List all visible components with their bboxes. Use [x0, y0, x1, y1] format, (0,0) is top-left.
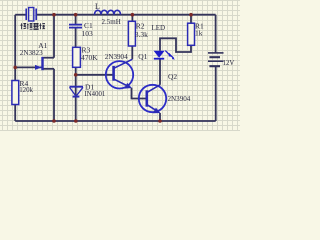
wire: Q2 emitter to bottom rail	[159, 113, 161, 121]
svg-text:Q2: Q2	[168, 72, 177, 81]
svg-text:L: L	[95, 2, 100, 11]
diode D1	[70, 87, 84, 97]
junction: R2 / top rail	[131, 13, 135, 17]
svg-text:IN4001: IN4001	[85, 91, 106, 98]
svg-text:LED: LED	[152, 24, 166, 32]
junction: gate / left column	[13, 66, 17, 70]
wire: R4 bottom to bottom rail	[14, 105, 16, 122]
svg-text:1k: 1k	[195, 29, 203, 38]
svg-text:2N3823: 2N3823	[20, 49, 43, 57]
wire: battery bottom to rail	[215, 66, 217, 121]
wire: JFET gate from left column	[15, 66, 41, 68]
wire: LED anode bridge to R1 bottom	[160, 38, 191, 52]
svg-text:2N3904: 2N3904	[168, 95, 191, 103]
junction: R1 / top rail	[189, 13, 193, 17]
inductor L	[95, 10, 121, 14]
junction: Q2 emitter / bottom rail	[158, 119, 162, 123]
junction: C1 / top rail	[74, 13, 78, 17]
JFET A1	[35, 57, 54, 70]
svg-text:103: 103	[82, 29, 94, 38]
resistor R1	[188, 23, 195, 45]
svg-text:120k: 120k	[19, 87, 33, 94]
wire: JFET drain up to rail	[53, 15, 55, 58]
wire: R2 stub from rail	[131, 15, 133, 22]
wire: R2 bottom to Q1 collector	[131, 46, 133, 59]
wire: base wire to Q1	[76, 74, 114, 76]
resistor R4	[12, 81, 19, 105]
svg-text:2.5mH: 2.5mH	[102, 18, 121, 26]
wire: top rail	[15, 14, 215, 16]
svg-text:Q1: Q1	[138, 52, 147, 61]
svg-text:2N3904: 2N3904	[105, 53, 128, 61]
battery 12V	[208, 53, 224, 66]
junction: JFET drain / top rail	[52, 13, 56, 17]
transistor Q1	[106, 59, 133, 88]
LED	[154, 51, 175, 60]
wire: battery top from rail	[215, 15, 217, 53]
svg-text:D1: D1	[85, 82, 94, 91]
wire: bottom rail	[15, 120, 216, 122]
wire: R1 stub from rail	[190, 15, 192, 24]
wire: R3 bottom to D1 to bottom rail	[75, 67, 77, 121]
junction: D1 / bottom rail	[74, 119, 78, 123]
wire: JFET source down to rail	[53, 69, 55, 121]
junction: JFET source / bottom rail	[52, 119, 56, 123]
wire: left column (crystal left / gate / R4)	[14, 15, 16, 81]
svg-text:3.3k: 3.3k	[135, 30, 148, 39]
wire: C1 top	[75, 15, 77, 24]
wire: C1 bottom to R3	[75, 28, 77, 47]
resistor R2	[128, 21, 135, 46]
crystal Y1 (被测晶振)	[26, 8, 36, 22]
svg-text:470K: 470K	[81, 53, 98, 62]
wire: Q1 emitter down and right to Q2 base	[132, 88, 147, 99]
junction: R3 / Q1 base	[74, 73, 78, 77]
transistor Q2	[139, 85, 166, 113]
wire: LED cathode to Q2 collector	[159, 59, 161, 85]
capacitor C1	[69, 25, 82, 28]
label crystal 被测晶振	[20, 23, 45, 29]
resistor R3	[73, 47, 81, 67]
svg-text:12V: 12V	[223, 60, 235, 67]
